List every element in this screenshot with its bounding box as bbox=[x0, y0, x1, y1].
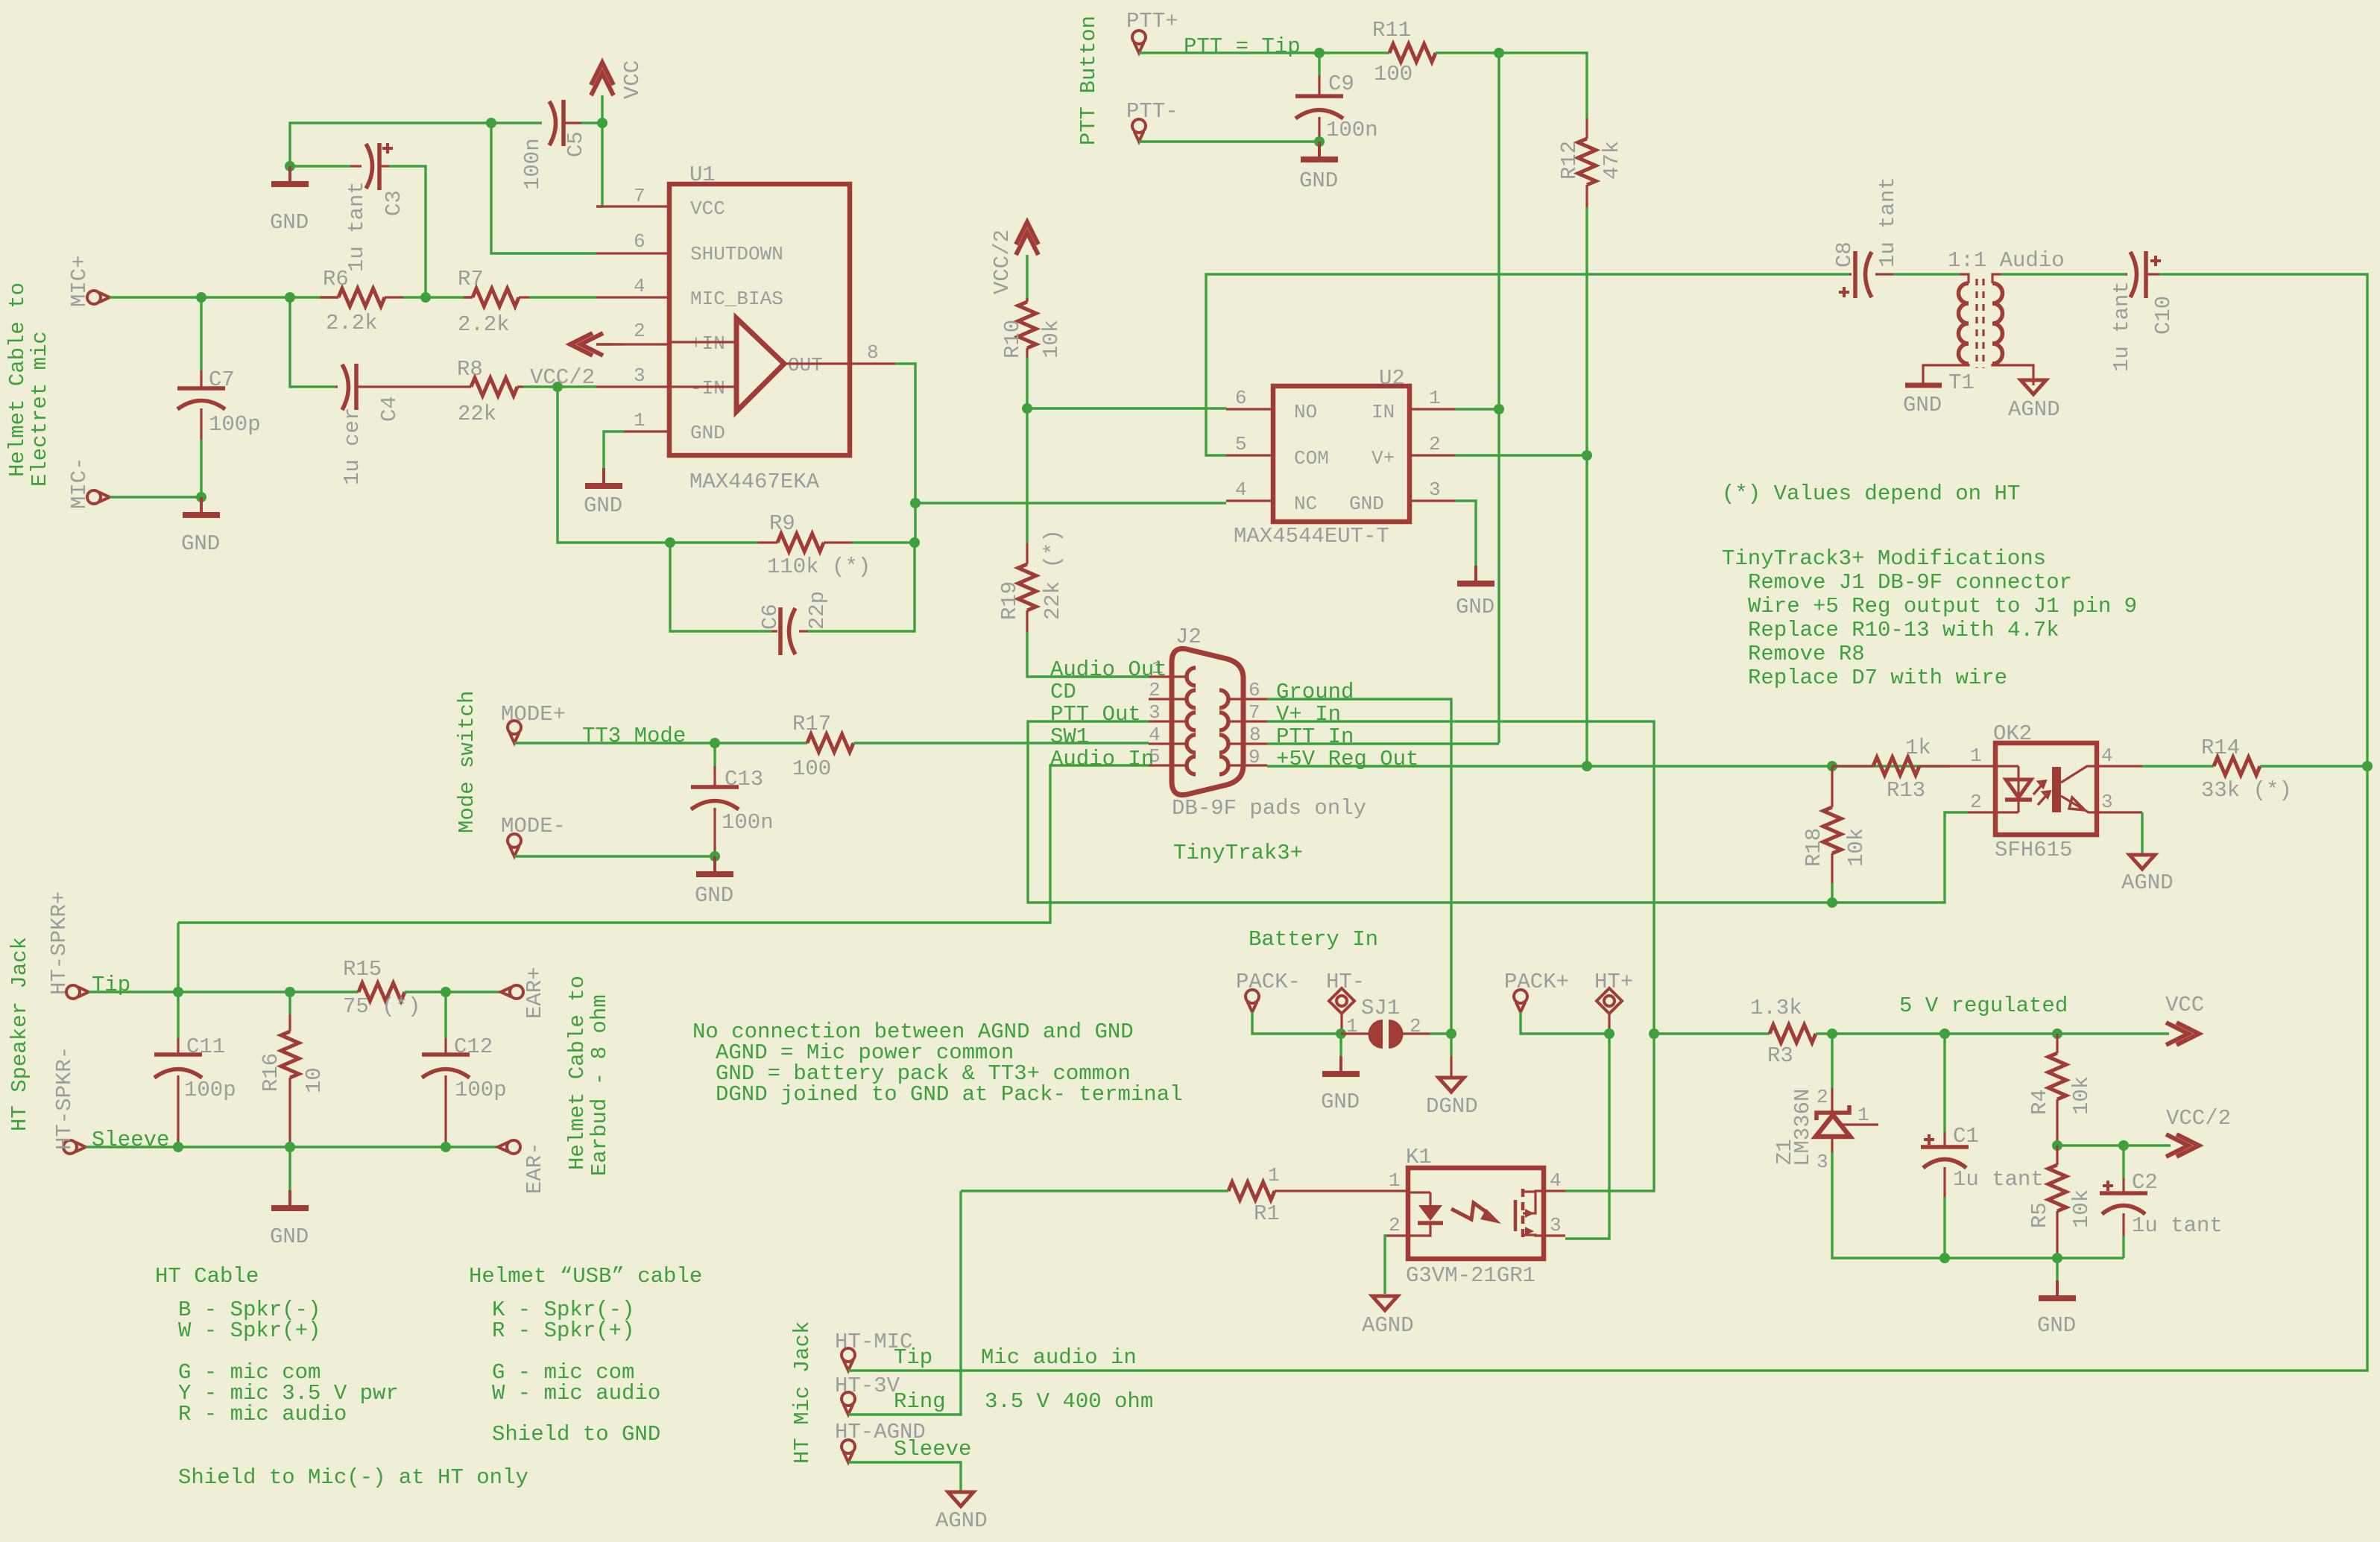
svg-text:C11: C11 bbox=[186, 1034, 225, 1059]
annotation: Helmet USB cable legend bbox=[469, 1264, 702, 1447]
svg-text:C3: C3 bbox=[382, 190, 406, 216]
pin line U2 pin 6 bbox=[1226, 408, 1273, 410]
svg-text:3: 3 bbox=[2101, 791, 2113, 813]
svg-text:HT Speaker Jack: HT Speaker Jack bbox=[7, 937, 32, 1131]
svg-text:Shield to Mic(-) at HT only: Shield to Mic(-) at HT only bbox=[178, 1465, 528, 1490]
wire V+ node to R3 bbox=[1654, 1032, 1770, 1034]
svg-text:100n: 100n bbox=[722, 810, 774, 835]
svg-text:C7: C7 bbox=[209, 367, 235, 392]
svg-text:SFH615: SFH615 bbox=[1995, 838, 2072, 862]
port PTT+ bbox=[1126, 9, 1178, 53]
ground AGND below K1 bbox=[1362, 1296, 1414, 1338]
wire MODE+ to R17 bbox=[514, 742, 807, 744]
svg-text:GND: GND bbox=[181, 531, 220, 556]
pin line U2 pin 3 bbox=[1410, 499, 1455, 502]
svg-text:U1: U1 bbox=[689, 162, 716, 187]
ground DGND bbox=[1426, 1034, 1478, 1119]
node PACK+/HT+/K1 pin3 junction bbox=[1604, 1028, 1614, 1039]
wire to R9 bbox=[674, 541, 758, 543]
pin line U1 pin 6 bbox=[596, 252, 669, 254]
port HT+ diamond pad bbox=[1594, 970, 1633, 1034]
svg-text:MODE+: MODE+ bbox=[501, 702, 566, 727]
svg-text:HT-: HT- bbox=[1326, 970, 1365, 994]
svg-text:1.3k: 1.3k bbox=[1750, 996, 1802, 1020]
solder jumper SJ1 bbox=[1341, 996, 1430, 1049]
svg-text:4: 4 bbox=[2101, 745, 2113, 767]
annotation: Helmet Cable to Electret mic bbox=[5, 282, 52, 487]
pin line U1 pin 7 bbox=[596, 205, 669, 207]
wire R11 to R12 corner bbox=[1436, 53, 1587, 119]
svg-text:VCC/2: VCC/2 bbox=[990, 230, 1014, 294]
resistor R17 bbox=[792, 712, 853, 781]
port EAR+ bbox=[501, 967, 547, 1019]
wire J2 pin9 +5V Reg Out bbox=[1267, 765, 1950, 767]
resistor R4 bbox=[2027, 1034, 2094, 1146]
wire U2 IN pin1 bbox=[1455, 408, 1499, 410]
svg-text:6: 6 bbox=[1249, 679, 1260, 701]
svg-text:OUT: OUT bbox=[788, 354, 823, 376]
port MIC+ bbox=[67, 255, 110, 307]
svg-text:GND: GND bbox=[1321, 1090, 1360, 1114]
capacitor C9 (100n) bbox=[1295, 72, 1378, 142]
port EAR- bbox=[498, 1140, 547, 1194]
port PTT- bbox=[1126, 99, 1178, 142]
ground GND below C9 bbox=[1299, 142, 1338, 193]
svg-text:G3VM-21GR1: G3VM-21GR1 bbox=[1406, 1263, 1535, 1288]
svg-text:SW1: SW1 bbox=[1050, 724, 1089, 749]
port PACK+ bbox=[1504, 970, 1569, 1012]
wire SJ1 to DGND node bbox=[1430, 1032, 1451, 1034]
resistor R5 bbox=[2027, 1146, 2094, 1258]
svg-text:R3: R3 bbox=[1767, 1043, 1793, 1068]
svg-text:PTT Out: PTT Out bbox=[1050, 702, 1141, 727]
svg-text:NC: NC bbox=[1294, 493, 1317, 515]
port HT-MIC bbox=[835, 1330, 912, 1371]
wire V+ net down to +5V row bbox=[1585, 455, 1588, 766]
svg-text:GND: GND bbox=[2037, 1313, 2076, 1338]
svg-text:(*) Values depend on HT: (*) Values depend on HT bbox=[1722, 481, 2020, 506]
svg-text:R10: R10 bbox=[1000, 320, 1025, 358]
wire Sleeve row bbox=[86, 1146, 498, 1148]
wire Z1 to bottom rail bbox=[1832, 1152, 2124, 1258]
ground GND below PACK- node bbox=[1321, 1034, 1360, 1114]
svg-text:1: 1 bbox=[1970, 745, 1982, 767]
svg-text:C5: C5 bbox=[564, 131, 588, 157]
svg-text:-IN: -IN bbox=[690, 377, 725, 399]
J2 pin lines right bbox=[1228, 699, 1267, 765]
wire J2 pin5 Audio In bbox=[178, 765, 1149, 923]
svg-text:W - mic audio: W - mic audio bbox=[492, 1381, 660, 1406]
wire C5 to VCC node bbox=[581, 121, 602, 124]
ground GND below speaker sleeve bbox=[270, 1147, 309, 1249]
svg-text:7: 7 bbox=[634, 185, 645, 207]
svg-text:8: 8 bbox=[867, 341, 879, 364]
svg-text:Sleeve: Sleeve bbox=[92, 1128, 169, 1152]
capacitor C7 bbox=[177, 367, 261, 440]
svg-text:100: 100 bbox=[792, 756, 831, 781]
annotation: TinyTrack3+ Modifications block bbox=[1722, 546, 2137, 690]
pin line U1 pin 8 bbox=[850, 362, 895, 364]
svg-text:R16: R16 bbox=[259, 1053, 283, 1092]
svg-text:Sleeve: Sleeve bbox=[894, 1437, 971, 1462]
pin line U1 pin 3 bbox=[596, 385, 669, 388]
svg-text:PTT-: PTT- bbox=[1126, 99, 1178, 124]
svg-text:1:1 Audio: 1:1 Audio bbox=[1948, 248, 2065, 273]
node Z1 junction bbox=[1827, 1028, 1837, 1039]
wire PTT- to C9 bottom bbox=[1139, 140, 1319, 142]
svg-text:PACK-: PACK- bbox=[1236, 970, 1301, 994]
wire HT+ node down to K1 pin3 bbox=[1565, 1034, 1609, 1239]
node Tip/C11/AudioIn junction bbox=[173, 987, 183, 997]
svg-text:Remove R8: Remove R8 bbox=[1748, 642, 1865, 666]
transformer T1 bbox=[1923, 248, 2065, 395]
svg-text:R5: R5 bbox=[2027, 1202, 2052, 1228]
annotation: Helmet Cable to Earbud - 8 ohm bbox=[565, 976, 612, 1176]
node +5V/R12 junction bbox=[1582, 761, 1592, 771]
J2 right pads pins 6-9 bbox=[1219, 690, 1228, 774]
ground GND below C13 bbox=[695, 856, 733, 908]
svg-text:100p: 100p bbox=[184, 1078, 236, 1102]
capacitor C4 (1u cer) bbox=[335, 364, 402, 485]
resistor R13 bbox=[1832, 736, 1950, 803]
svg-text:1u tant: 1u tant bbox=[2109, 281, 2134, 372]
pin line U2 pin 5 bbox=[1226, 454, 1273, 456]
svg-text:MIC+: MIC+ bbox=[67, 255, 92, 307]
svg-text:2: 2 bbox=[1816, 1086, 1828, 1108]
resistor R18 bbox=[1802, 766, 1869, 883]
wire R9 right to OUT node bbox=[852, 541, 915, 543]
node Sleeve/C11 junction bbox=[173, 1142, 183, 1152]
resistor R6 bbox=[320, 267, 403, 335]
svg-text:C10: C10 bbox=[2151, 296, 2176, 335]
wire R6 to R7 bbox=[403, 296, 473, 298]
node MIC+/C7 junction bbox=[196, 292, 206, 303]
svg-text:1u cer: 1u cer bbox=[340, 408, 364, 485]
capacitor C6 (22p) bbox=[758, 591, 830, 655]
svg-text:R13: R13 bbox=[1887, 778, 1925, 803]
U1 pin numbers bbox=[634, 185, 879, 432]
svg-text:DGND joined to GND at Pack- te: DGND joined to GND at Pack- terminal bbox=[716, 1082, 1183, 1107]
svg-text:C2: C2 bbox=[2132, 1170, 2158, 1195]
svg-text:C12: C12 bbox=[454, 1034, 493, 1059]
wire OUT down to NC row bbox=[895, 364, 915, 503]
capacitor C3 (1u tant) bbox=[344, 143, 406, 272]
svg-text:7: 7 bbox=[1249, 701, 1260, 724]
node U2 IN junction bbox=[1494, 404, 1504, 414]
svg-text:100p: 100p bbox=[455, 1078, 507, 1102]
resistor R10 bbox=[1000, 298, 1064, 358]
OK2 pin lines bbox=[1950, 766, 2142, 812]
svg-text:3: 3 bbox=[1429, 478, 1441, 501]
op-amp U1 MAX4467EKA box bbox=[669, 162, 850, 494]
svg-text:1: 1 bbox=[1346, 1015, 1358, 1037]
node Tip/R16 junction bbox=[285, 987, 295, 997]
wire C9 branch bbox=[1318, 53, 1320, 75]
relay K1 G3VM-21GR1 box bbox=[1406, 1145, 1544, 1288]
node R9 left junction bbox=[665, 537, 675, 548]
ground GND below U2 bbox=[1456, 566, 1494, 619]
port Tip (HT speaker) bbox=[47, 891, 89, 999]
wire R14 to right edge bbox=[2260, 765, 2367, 767]
svg-text:HT-SPKR+: HT-SPKR+ bbox=[47, 891, 72, 995]
svg-text:22p: 22p bbox=[805, 591, 830, 630]
svg-text:10k: 10k bbox=[1039, 320, 1064, 358]
node Sleeve/C12 junction bbox=[441, 1142, 451, 1152]
wire Ring to R1 riser bbox=[848, 1191, 961, 1415]
svg-text:GND: GND bbox=[695, 883, 733, 908]
wire C7 to MIC- bbox=[110, 440, 201, 497]
svg-text:GND: GND bbox=[690, 422, 725, 444]
node Sleeve/R16/GND junction bbox=[285, 1142, 295, 1152]
wire OK2 pin3 to AGND bbox=[2141, 812, 2143, 855]
svg-text:Ground: Ground bbox=[1276, 680, 1354, 704]
resistor R3 bbox=[1750, 996, 1816, 1068]
U2 pin names bbox=[1294, 401, 1395, 515]
node R10/NO junction bbox=[1022, 403, 1032, 414]
node +5V/R13/R18 junction bbox=[1827, 761, 1837, 771]
svg-text:Ring: Ring bbox=[894, 1389, 946, 1414]
svg-text:R9: R9 bbox=[769, 511, 795, 536]
wire T1 to C10 bbox=[2001, 273, 2126, 275]
svg-text:DGND: DGND bbox=[1426, 1094, 1478, 1119]
wire VCC/2 node to U1 pin3 bbox=[558, 385, 596, 388]
wire R19 down to Audio Out row bbox=[1027, 632, 1149, 677]
node R9/C6 right junction bbox=[909, 537, 920, 548]
svg-text:TinyTrak3+: TinyTrak3+ bbox=[1173, 841, 1303, 865]
ground AGND below mic sleeve bbox=[935, 1492, 988, 1533]
wire K1 pin2 to AGND bbox=[1385, 1236, 1386, 1294]
supply VCC arrow on 5V rail bbox=[2165, 993, 2204, 1045]
svg-text:COM: COM bbox=[1294, 447, 1329, 470]
node R14/right edge junction bbox=[2362, 761, 2373, 771]
svg-text:3: 3 bbox=[1550, 1214, 1562, 1236]
svg-text:GND: GND bbox=[1299, 168, 1338, 193]
supply VCC/2 arrow at +IN pin 2 bbox=[570, 333, 624, 356]
svg-text:9: 9 bbox=[1249, 746, 1260, 768]
svg-text:100: 100 bbox=[1374, 62, 1412, 86]
svg-text:T1: T1 bbox=[1948, 370, 1975, 395]
svg-text:C1: C1 bbox=[1953, 1124, 1979, 1148]
capacitor C8 (1u tant) bbox=[1832, 177, 1900, 298]
port MODE- bbox=[501, 814, 566, 856]
wire V+ node down to K1 pin4 bbox=[1565, 1034, 1654, 1191]
svg-text:100n: 100n bbox=[1326, 118, 1378, 142]
op-amp U1 triangle bbox=[736, 318, 784, 411]
svg-text:3: 3 bbox=[1149, 701, 1161, 724]
wire C2 to bottom rail bbox=[2122, 1236, 2124, 1258]
svg-text:5: 5 bbox=[1235, 433, 1247, 455]
node C2 top junction bbox=[2118, 1140, 2129, 1151]
svg-text:2: 2 bbox=[1410, 1015, 1421, 1037]
node PTT+/C9 junction bbox=[1314, 48, 1325, 58]
svg-text:Tip: Tip bbox=[92, 973, 130, 997]
port PACK- bbox=[1236, 970, 1301, 1012]
pin line U1 pin 1 GND bbox=[624, 430, 669, 432]
svg-text:GND: GND bbox=[270, 210, 309, 235]
resistor R16 bbox=[259, 992, 326, 1147]
wire C7 branch bbox=[200, 297, 202, 370]
ground GND below C3 node bbox=[270, 166, 309, 235]
U2 pin numbers bbox=[1235, 387, 1441, 501]
svg-text:VCC: VCC bbox=[2165, 993, 2204, 1017]
svg-text:C8: C8 bbox=[1832, 241, 1857, 268]
wire C6 loop right bbox=[808, 546, 915, 631]
svg-text:NO: NO bbox=[1294, 401, 1317, 423]
svg-text:C9: C9 bbox=[1328, 72, 1354, 96]
optocoupler OK2 SFH615 box bbox=[1993, 721, 2097, 862]
node C13 top junction bbox=[710, 738, 720, 748]
resistor R7 bbox=[458, 267, 529, 337]
svg-text:75 (*): 75 (*) bbox=[343, 994, 420, 1019]
wire PACK+ to R3 bbox=[1521, 1012, 1609, 1034]
svg-text:AGND: AGND bbox=[2121, 870, 2174, 895]
svg-text:Helmet Cable to: Helmet Cable to bbox=[5, 282, 30, 477]
wire J2 pin8 PTT In bbox=[1267, 742, 1499, 745]
node MIC- junction bbox=[196, 492, 206, 502]
svg-text:2: 2 bbox=[1429, 433, 1441, 455]
wire OUT node down to R9/C6 bbox=[914, 503, 916, 543]
analog switch U2 MAX4544EUT-T box bbox=[1234, 366, 1410, 549]
wire OUT to U2 NC pin4 bbox=[915, 502, 1226, 504]
ground GND below C7 bbox=[181, 497, 220, 556]
wire C4 branch bbox=[290, 297, 335, 387]
capacitor C11 (100p) bbox=[154, 992, 236, 1147]
svg-text:HT+: HT+ bbox=[1594, 970, 1633, 994]
svg-text:PACK+: PACK+ bbox=[1504, 970, 1569, 994]
node R11/PTT-In junction bbox=[1494, 48, 1504, 58]
supply VCC arrow bbox=[591, 60, 645, 123]
annotation: HT Cable legend bbox=[155, 1264, 528, 1490]
svg-text:OK2: OK2 bbox=[1993, 721, 2032, 746]
wire NO node down to R19 bbox=[1026, 408, 1028, 543]
svg-text:Audio In: Audio In bbox=[1050, 747, 1154, 771]
svg-text:MIC-: MIC- bbox=[67, 457, 92, 509]
svg-text:R4: R4 bbox=[2027, 1089, 2052, 1115]
svg-text:SJ1: SJ1 bbox=[1361, 996, 1400, 1020]
svg-text:10k: 10k bbox=[2069, 1076, 2094, 1115]
svg-text:C4: C4 bbox=[377, 396, 402, 422]
port MODE+ bbox=[501, 702, 566, 743]
node VCC junction bbox=[597, 118, 607, 128]
ground AGND below OK2 bbox=[2121, 855, 2174, 895]
wire R12 down to U2 V+ bbox=[1585, 207, 1588, 455]
wire J2 pin3 PTT Out bbox=[1028, 721, 1968, 903]
node SJ1/DGND junction bbox=[1446, 1028, 1456, 1039]
wire J2 pin7 V+ In bbox=[1267, 721, 1654, 1034]
svg-text:2: 2 bbox=[1970, 791, 1982, 813]
svg-text:2: 2 bbox=[1389, 1214, 1401, 1236]
node R4 junction bbox=[2052, 1028, 2062, 1039]
svg-text:1: 1 bbox=[1857, 1104, 1869, 1126]
svg-text:110k (*): 110k (*) bbox=[767, 554, 871, 579]
svg-text:MAX4467EKA: MAX4467EKA bbox=[689, 470, 820, 494]
svg-text:Audio Out: Audio Out bbox=[1050, 657, 1167, 682]
wire VCC/2 to R10 bbox=[1026, 255, 1028, 302]
resistor R14 bbox=[2201, 736, 2292, 803]
svg-text:PTT In: PTT In bbox=[1276, 724, 1354, 749]
svg-text:4: 4 bbox=[1235, 478, 1247, 501]
node V+In/K1 pin4 junction bbox=[1649, 1028, 1659, 1039]
wire feedback down from VCC/2 node bbox=[558, 387, 674, 543]
wire R8 to VCC/2 node bbox=[523, 385, 558, 388]
resistor R1 bbox=[1228, 1164, 1386, 1226]
node R18/PTT Out junction bbox=[1827, 897, 1837, 908]
capacitor C13 (100n) bbox=[691, 743, 774, 856]
svg-text:Mode switch: Mode switch bbox=[455, 691, 479, 833]
svg-text:Remove J1 DB-9F connector: Remove J1 DB-9F connector bbox=[1748, 570, 2072, 595]
wire U2 COM to audio line bbox=[1206, 274, 1849, 455]
svg-text:R8: R8 bbox=[457, 357, 483, 382]
svg-text:IN: IN bbox=[1372, 401, 1395, 423]
svg-text:GND: GND bbox=[1456, 595, 1494, 619]
port MIC- bbox=[67, 457, 110, 509]
wire PTT net vertical bbox=[1497, 53, 1500, 743]
svg-text:TT3 Mode: TT3 Mode bbox=[582, 724, 686, 748]
pin line U1 -IN internal bbox=[669, 385, 736, 388]
svg-text:10k: 10k bbox=[2069, 1189, 2094, 1228]
svg-text:1: 1 bbox=[1429, 387, 1441, 409]
OK2 internal phototransistor bbox=[2052, 766, 2097, 812]
svg-text:MAX4544EUT-T: MAX4544EUT-T bbox=[1234, 524, 1389, 549]
pin line U2 pin 4 bbox=[1226, 499, 1273, 502]
svg-text:R17: R17 bbox=[792, 712, 831, 736]
svg-text:R18: R18 bbox=[1802, 828, 1826, 867]
svg-text:MIC_BIAS: MIC_BIAS bbox=[690, 288, 783, 310]
svg-text:V+ In: V+ In bbox=[1276, 702, 1341, 727]
wire Ring to R1 bbox=[961, 1189, 1228, 1192]
pin line U1 pin 2 bbox=[596, 343, 669, 345]
svg-text:10: 10 bbox=[302, 1067, 326, 1093]
svg-text:6: 6 bbox=[1235, 387, 1247, 409]
wire R7 to U1 pin4 bbox=[529, 296, 596, 298]
supply VCC/2 arrow right bbox=[2166, 1106, 2231, 1157]
node C1 bottom junction bbox=[1939, 1253, 1950, 1263]
pin line U1 OUT internal bbox=[784, 362, 850, 364]
wire R17 to J2 SW1 bbox=[853, 742, 1149, 744]
U1 pin names bbox=[690, 198, 823, 444]
svg-text:EAR+: EAR+ bbox=[523, 967, 547, 1019]
resistor R11 bbox=[1372, 18, 1436, 86]
svg-text:R19: R19 bbox=[997, 581, 1022, 620]
svg-text:2.2k: 2.2k bbox=[458, 312, 510, 337]
K1 pin lines bbox=[1386, 1191, 1565, 1236]
svg-text:33k (*): 33k (*) bbox=[2201, 778, 2292, 803]
svg-text:Shield to GND: Shield to GND bbox=[492, 1422, 660, 1447]
capacitor C12 (100p) bbox=[422, 992, 507, 1147]
wire PACK- to SJ1 bbox=[1252, 1012, 1341, 1034]
node PACK-/HT- junction bbox=[1336, 1028, 1346, 1039]
svg-text:Tip: Tip bbox=[894, 1345, 932, 1370]
svg-text:6: 6 bbox=[634, 230, 645, 253]
capacitor C2 (1u tant) bbox=[2100, 1146, 2223, 1238]
J2 left pads pins 1-5 bbox=[1187, 668, 1196, 774]
node OUT junction bbox=[910, 498, 921, 508]
K1 internal MOSFET output bbox=[1515, 1189, 1544, 1238]
wire R10 to NO node bbox=[1026, 358, 1028, 408]
node C13 bottom junction bbox=[710, 851, 720, 862]
K1 pin numbers bbox=[1389, 1169, 1562, 1236]
wire top rail from C3 node up to C5 bbox=[290, 123, 542, 166]
svg-text:LM336N: LM336N bbox=[1790, 1089, 1815, 1166]
node R5 bottom junction bbox=[2052, 1253, 2062, 1263]
wire HT-MIC Tip audio line bbox=[848, 766, 2367, 1371]
node EAR+/C12 junction bbox=[441, 987, 451, 997]
OK2 internal light arrows bbox=[2033, 781, 2050, 805]
svg-text:HT Cable: HT Cable bbox=[155, 1264, 259, 1289]
ground AGND below T1 right bbox=[2008, 380, 2060, 422]
svg-text:47k: 47k bbox=[1600, 141, 1624, 180]
port HT-AGND bbox=[835, 1420, 926, 1462]
